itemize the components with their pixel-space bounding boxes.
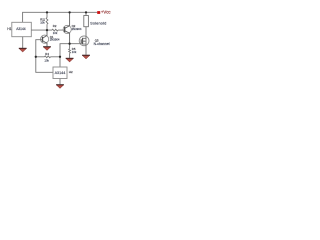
svg-text:10k: 10k — [53, 31, 58, 35]
svg-text:+Vcc: +Vcc — [101, 10, 112, 15]
svg-text:10k: 10k — [72, 50, 77, 54]
svg-text:N-channel: N-channel — [94, 42, 110, 46]
svg-text:2N3904: 2N3904 — [50, 38, 60, 42]
svg-text:R4: R4 — [45, 52, 49, 56]
svg-text:R2: R2 — [53, 24, 57, 28]
svg-text:10k: 10k — [40, 21, 45, 25]
svg-text:H2: H2 — [69, 70, 73, 74]
svg-text:10k: 10k — [44, 58, 49, 62]
svg-text:H1: H1 — [7, 27, 11, 31]
svg-text:2N3904: 2N3904 — [72, 27, 82, 31]
svg-text:Solenoid: Solenoid — [90, 21, 106, 26]
svg-text:A3144: A3144 — [16, 27, 26, 31]
svg-text:A3144: A3144 — [55, 71, 66, 75]
